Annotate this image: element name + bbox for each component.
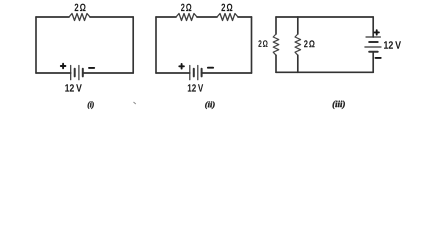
label: 12 V value for B1 bbox=[65, 84, 82, 91]
resistor R5 2 ohm (circuit iii, middle branch) bbox=[295, 34, 301, 55]
wire: circuit (iii) left branch upper bbox=[275, 17, 277, 34]
resistor R4 2 ohm (circuit iii, left branch) bbox=[273, 34, 279, 55]
label: caption (iii) bbox=[333, 101, 345, 109]
wire: circuit (ii) bottom-right segment bbox=[202, 72, 252, 74]
label: 2 ohm value for R4 bbox=[258, 40, 267, 47]
wire: circuit (i) top-right segment bbox=[90, 16, 133, 18]
wire: circuit (iii) bottom segment bbox=[276, 71, 373, 73]
label: 2 ohm value for R3 bbox=[221, 4, 232, 12]
label: 2 ohm value for R5 bbox=[304, 40, 315, 47]
resistor R2 2 ohm (circuit ii, top left) bbox=[176, 14, 197, 21]
wire: circuit (iii) top segment bbox=[276, 16, 373, 18]
wire: circuit (ii) left side bbox=[155, 17, 157, 73]
label: caption (i) bbox=[88, 101, 94, 109]
stray scan tick mark bbox=[134, 102, 136, 104]
wire: circuit (iii) left branch lower bbox=[275, 55, 277, 72]
wire: circuit (iii) middle branch lower bbox=[297, 55, 299, 72]
battery B2 plus terminal mark bbox=[179, 64, 184, 69]
wire: circuit (ii) top-middle segment bbox=[197, 16, 217, 18]
wire: circuit (iii) right side upper bbox=[372, 17, 374, 37]
label: 2 ohm value for R2 bbox=[181, 4, 191, 12]
battery B1 12V (circuit i) bbox=[71, 66, 83, 80]
wire: circuit (i) bottom-right segment bbox=[83, 72, 133, 74]
label: 12 V value for B2 bbox=[188, 84, 203, 91]
battery B2 minus terminal mark bbox=[208, 67, 213, 69]
wire: circuit (ii) top-right segment bbox=[238, 16, 252, 18]
battery B3 plus terminal mark bbox=[375, 30, 379, 34]
resistor R1 2 ohm (circuit i, top) bbox=[69, 14, 90, 21]
wire: circuit (iii) right side lower bbox=[372, 52, 374, 73]
wire: circuit (ii) top-left segment bbox=[156, 16, 176, 18]
resistor R3 2 ohm (circuit ii, top right) bbox=[217, 14, 238, 21]
wire: circuit (iii) middle branch upper bbox=[297, 17, 299, 34]
battery B2 12V (circuit ii) bbox=[190, 66, 202, 80]
wire: circuit (i) right side bbox=[132, 17, 134, 73]
label: 12 V value for B3 bbox=[384, 41, 401, 49]
wire: circuit (i) top-left segment bbox=[36, 16, 69, 18]
label: 2 ohm value for R1 bbox=[75, 4, 86, 12]
label: caption (ii) bbox=[205, 101, 214, 109]
battery B1 plus terminal mark bbox=[61, 64, 66, 69]
wire: circuit (i) left side bbox=[35, 17, 37, 73]
wire: circuit (ii) right side bbox=[251, 17, 253, 73]
wire: circuit (i) bottom-left segment bbox=[36, 72, 71, 74]
battery B3 minus terminal mark bbox=[376, 57, 381, 59]
wire: circuit (ii) bottom-left segment bbox=[156, 72, 190, 74]
battery B1 minus terminal mark bbox=[89, 67, 94, 69]
battery B3 12V (circuit iii, vertical) bbox=[365, 37, 381, 52]
